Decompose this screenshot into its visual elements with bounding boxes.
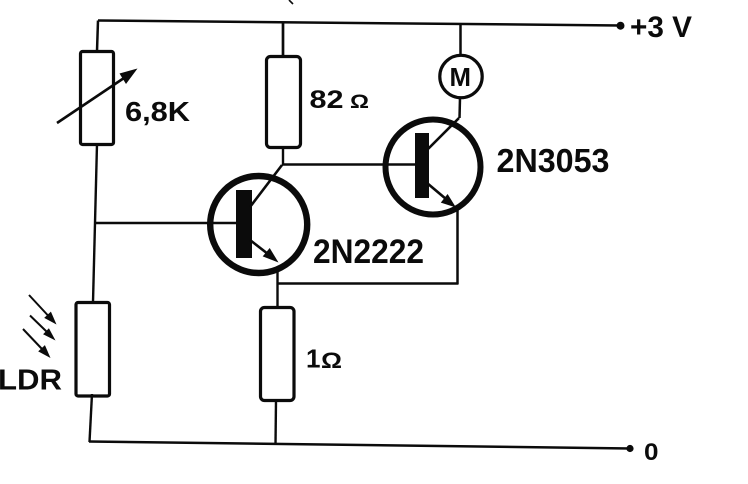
motor M <box>440 55 482 97</box>
light arrow 1 <box>29 295 57 325</box>
transistor Q2 2N3053 <box>386 118 481 215</box>
wire R1 bottom to LDR top <box>93 144 97 302</box>
resistor R3 1 ohm <box>261 308 295 401</box>
node 0V terminal dot <box>626 445 633 452</box>
transistor Q1 2N2222 <box>210 165 307 273</box>
svg-text:1: 1 <box>306 344 320 374</box>
wire bottom 0V rail <box>89 442 630 449</box>
svg-text:+3 V: +3 V <box>630 11 692 44</box>
resistor R1 6,8K <box>81 52 114 145</box>
wire rail to R2 top <box>282 22 285 56</box>
wire LDR bottom to 0V rail <box>90 394 93 442</box>
svg-text:2N2222: 2N2222 <box>313 233 424 271</box>
wire top +3V rail <box>98 21 620 26</box>
LDR <box>76 303 110 397</box>
wire Q2 emitter down <box>456 210 459 285</box>
svg-text:82: 82 <box>310 86 344 114</box>
light arrow 2 <box>30 316 56 341</box>
arrow of variable resistor R1 <box>57 69 138 124</box>
svg-text:6,8K: 6,8K <box>125 96 190 127</box>
svg-text:LDR: LDR <box>0 365 62 397</box>
light arrow 3 <box>23 329 51 358</box>
svg-text:M: M <box>450 62 472 92</box>
wire motor to Q2 collector <box>458 98 461 118</box>
svg-text:Ω: Ω <box>321 348 342 373</box>
wire collector node to Q2 base <box>282 163 416 165</box>
svg-text:2N3053: 2N3053 <box>497 142 610 179</box>
wire R3 bottom to 0V rail <box>274 400 277 445</box>
wire Q1 emitter down to R3 <box>276 271 278 307</box>
wire rail to R1 top <box>97 21 98 52</box>
wire rail to motor <box>459 24 462 55</box>
wire Q1 base lead <box>95 222 237 224</box>
node +3V terminal dot <box>617 22 625 30</box>
wire emitter bus to Q2 emitter <box>278 282 459 285</box>
scan speck top <box>289 0 293 4</box>
resistor R2 82 ohm <box>267 57 301 148</box>
wire R2 bottom to collector node <box>282 147 284 165</box>
svg-text:0: 0 <box>644 439 659 466</box>
svg-text:Ω: Ω <box>350 92 369 113</box>
